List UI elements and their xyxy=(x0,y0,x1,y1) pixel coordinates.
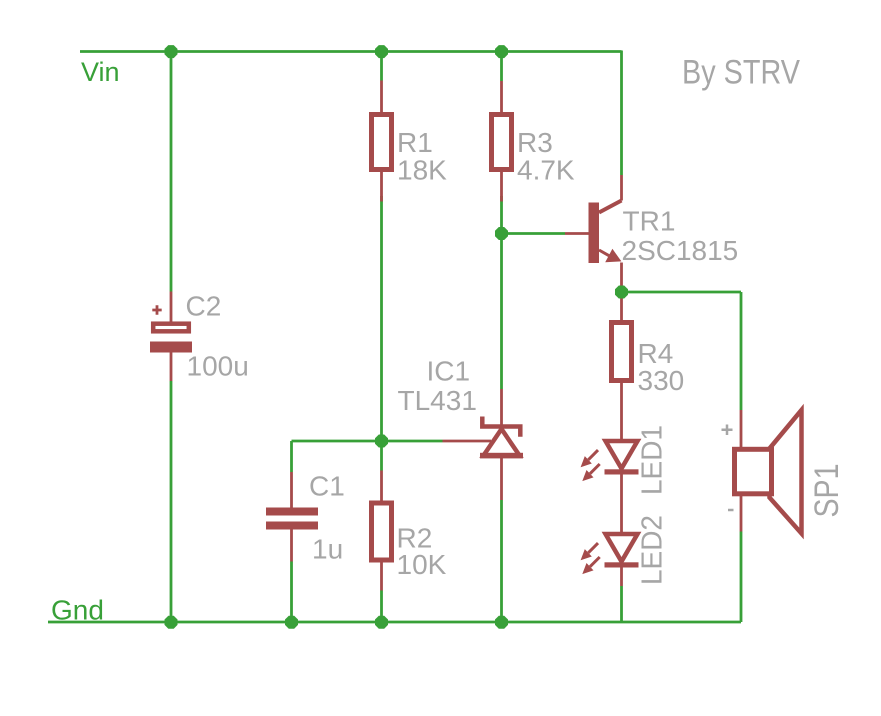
svg-text:SP1: SP1 xyxy=(808,464,846,518)
resistor R4 xyxy=(612,323,632,381)
pin: IC1 anode xyxy=(500,457,503,500)
diode LED1 arrow 2 xyxy=(582,464,599,481)
wire: C2 column lower xyxy=(170,381,173,622)
wire: IC1 anode to gnd xyxy=(500,500,503,622)
resistor R3 xyxy=(492,115,512,170)
svg-text:C2: C2 xyxy=(186,291,222,322)
svg-text:IC1: IC1 xyxy=(427,356,471,387)
svg-text:100u: 100u xyxy=(187,351,249,382)
pin: R2 top xyxy=(380,471,383,502)
pin: IC1 ref xyxy=(443,440,492,443)
node: junction gnd at R2 xyxy=(375,616,388,629)
pin: SP1 minus xyxy=(740,496,743,532)
capacitor C1 bottom plate xyxy=(266,522,318,530)
wire: Gnd bottom rail xyxy=(48,621,741,624)
node: junction top rail at R3 xyxy=(495,45,508,58)
wire: C1 bottom to gnd xyxy=(290,562,293,623)
capacitor C2 plus sign xyxy=(152,305,161,314)
pin: C1 top xyxy=(290,472,293,508)
pin: SP1 plus xyxy=(740,410,743,448)
transistor Q1: TR1 base bar xyxy=(589,203,600,264)
pin: R1 top xyxy=(380,81,383,114)
pin: IC1 cathode xyxy=(500,389,503,429)
diode LED1 triangle xyxy=(606,441,638,469)
node: junction ref xyxy=(375,435,388,448)
capacitor C2 bottom plate xyxy=(150,342,192,353)
pin: C1 bottom xyxy=(290,529,293,562)
node: junction gnd at IC1 xyxy=(495,616,508,629)
wire: ref node horizontal xyxy=(292,440,443,443)
pin: R4 bottom to LED1 xyxy=(620,382,623,441)
speaker SP1 box xyxy=(735,449,772,494)
pin: R2 bottom xyxy=(380,562,383,591)
node: junction top rail at R1 xyxy=(375,45,388,58)
wire: base wire from node xyxy=(502,232,566,235)
svg-text:2SC1815: 2SC1815 xyxy=(622,235,739,266)
svg-text:Vin: Vin xyxy=(81,57,120,87)
pin: TR1 collector xyxy=(620,175,623,201)
node: junction emitter xyxy=(615,286,628,299)
capacitor C1 top plate xyxy=(266,508,318,516)
capacitor C2 top plate xyxy=(153,324,189,332)
transistor Q1: TR1 collector stroke xyxy=(599,201,622,213)
pin: C2 bottom xyxy=(170,352,173,381)
wire: LED2 bottom to gnd xyxy=(620,586,623,622)
svg-text:Gnd: Gnd xyxy=(51,595,104,626)
node: junction top rail at C2 xyxy=(165,45,178,58)
svg-text:C1: C1 xyxy=(309,471,345,502)
wire: emitter node to speaker column xyxy=(622,291,742,294)
svg-text:TR1: TR1 xyxy=(623,206,676,237)
op-amp U1: IC1 TL431 cathode bar with bent ends xyxy=(482,417,520,437)
node: junction gnd at C2 xyxy=(165,616,178,629)
svg-text:1u: 1u xyxy=(312,534,343,565)
speaker SP1 horn xyxy=(770,410,802,534)
diode LED2 arrow 2 xyxy=(582,557,599,574)
node: junction base xyxy=(495,227,508,240)
pin: R1 bottom xyxy=(380,171,383,202)
wire: collector drop from top rail xyxy=(620,51,623,176)
pin: C2 top xyxy=(170,292,173,323)
svg-text:LED1: LED1 xyxy=(637,425,669,495)
transistor Q1: TR1 emitter stroke xyxy=(599,250,609,256)
pin: TR1 emitter xyxy=(620,263,623,293)
resistor R2 xyxy=(372,503,392,560)
pin: R4 top xyxy=(620,292,623,321)
speaker plus sign xyxy=(722,425,733,436)
svg-text:10K: 10K xyxy=(397,549,447,580)
pin: R3 bottom xyxy=(500,171,503,202)
diode LED1 arrow 1 xyxy=(581,450,598,467)
speaker minus sign xyxy=(728,509,734,512)
wire: speaker column lower xyxy=(740,532,743,623)
wire: LED1 to LED2 xyxy=(620,475,623,535)
pin: LED2 bottom xyxy=(620,567,623,586)
diode LED2 cathode bar xyxy=(605,562,639,567)
svg-text:By STRV: By STRV xyxy=(682,53,800,91)
wire: R1 bottom to node A xyxy=(380,196,383,471)
wire: R3 bottom to base node and IC1 xyxy=(500,196,503,389)
wire: speaker column upper xyxy=(740,292,743,410)
op-amp U1: IC1 TL431 anode bar xyxy=(480,453,523,459)
op-amp U1: IC1 TL431 triangle xyxy=(484,429,520,456)
wire: Vin top rail xyxy=(80,50,622,53)
wire: R2 bottom to gnd xyxy=(380,591,383,623)
svg-text:4.7K: 4.7K xyxy=(517,155,575,186)
wire: C1 top drop xyxy=(290,441,293,472)
diode LED2 arrow 1 xyxy=(581,543,598,560)
transistor Q1: TR1 emitter arrow xyxy=(605,249,621,262)
wire: R3 top stub xyxy=(500,52,503,82)
svg-text:330: 330 xyxy=(638,365,685,396)
pin: R3 top xyxy=(500,81,503,113)
svg-text:R3: R3 xyxy=(517,127,553,158)
diode LED1 cathode bar xyxy=(605,469,639,474)
svg-text:TL431: TL431 xyxy=(398,385,477,416)
wire: R1 top stub xyxy=(380,52,383,81)
wire: C2 column upper xyxy=(170,52,173,292)
resistor R1 xyxy=(372,115,392,170)
pin: TR1 base xyxy=(565,232,589,235)
svg-text:18K: 18K xyxy=(397,155,447,186)
svg-text:LED2: LED2 xyxy=(637,515,669,585)
diode LED2 triangle xyxy=(606,534,638,562)
svg-text:R1: R1 xyxy=(397,127,433,158)
node: junction gnd at C1 xyxy=(285,616,298,629)
